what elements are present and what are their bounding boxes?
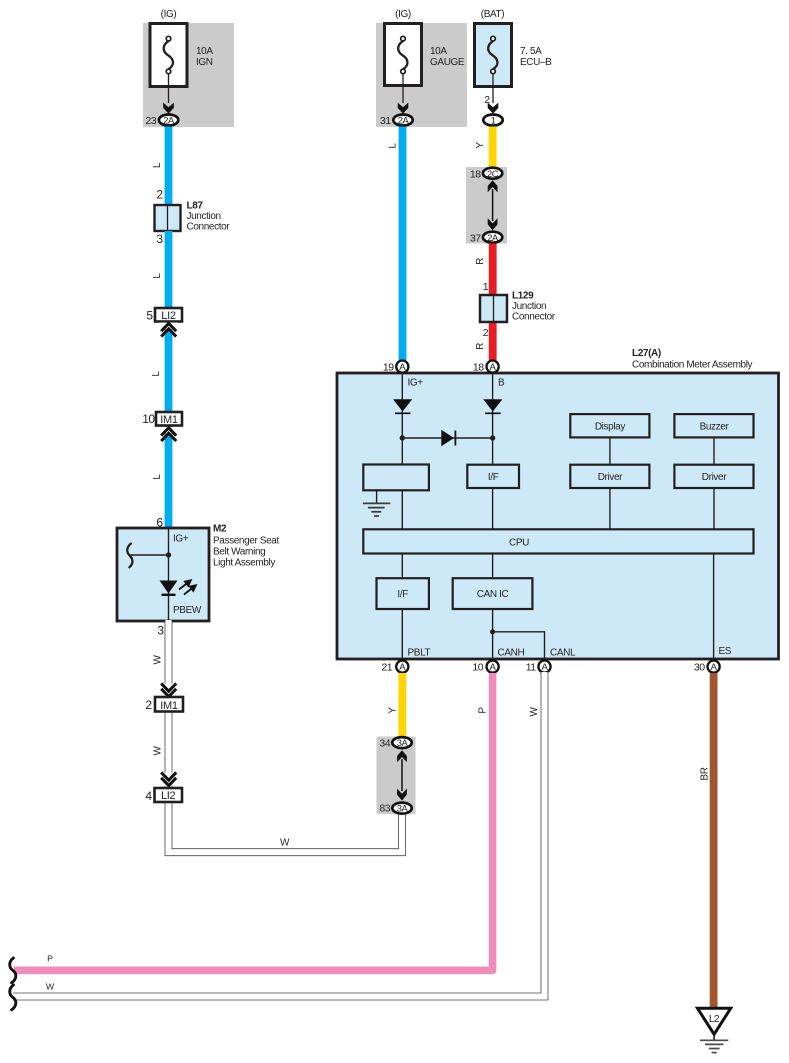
svg-text:A: A xyxy=(541,662,548,673)
svg-text:4: 4 xyxy=(145,789,152,803)
I/F box upper xyxy=(467,465,519,488)
wire L blue (fuse1 to L87) xyxy=(165,127,173,207)
svg-text:Light Assembly: Light Assembly xyxy=(213,558,275,569)
wire fuse1 to connector xyxy=(168,74,170,103)
svg-text:19: 19 xyxy=(383,362,394,374)
pin oval 2A xyxy=(483,232,502,243)
svg-text:Y: Y xyxy=(388,707,399,714)
svg-text:18: 18 xyxy=(473,362,484,374)
LED symbol xyxy=(160,581,178,594)
connector shading box 2C/2A xyxy=(466,167,507,244)
svg-text:18: 18 xyxy=(470,169,481,181)
pin oval 2C xyxy=(483,168,502,179)
wire I/F lower to PBLT pin xyxy=(401,609,403,660)
arrow into pin 31 xyxy=(398,103,409,114)
svg-text:Display: Display xyxy=(595,422,626,433)
wire driverL to CPU xyxy=(609,488,611,529)
regulator box (unnamed) xyxy=(363,465,429,491)
svg-text:L: L xyxy=(152,162,163,168)
connector mating arrow down xyxy=(397,789,407,801)
wire R red (2A to meter pin 18) xyxy=(489,244,497,362)
svg-text:W: W xyxy=(529,707,540,717)
switch curve symbol xyxy=(127,544,132,568)
wire CPU to I/F lower xyxy=(401,554,403,579)
wire W (M2 pin3 to connector 83-3A) xyxy=(169,620,403,852)
svg-text:2: 2 xyxy=(156,188,163,202)
svg-text:(BAT): (BAT) xyxy=(481,9,505,20)
svg-text:(IG): (IG) xyxy=(395,9,411,20)
fuse block shading box 2 xyxy=(376,23,467,127)
wire to switch xyxy=(131,554,169,556)
node junction CAN xyxy=(490,629,495,634)
cross wire with diode D3 xyxy=(402,437,492,439)
junction connector L129 xyxy=(480,295,507,322)
svg-text:L: L xyxy=(151,371,162,377)
svg-text:31: 31 xyxy=(380,115,391,127)
svg-text:21: 21 xyxy=(381,662,392,674)
fuse GAUGE element symbol xyxy=(398,36,407,73)
continuation squiggle P wire xyxy=(10,958,16,983)
svg-text:CPU: CPU xyxy=(509,538,529,549)
internal wire pin18 down xyxy=(492,373,494,465)
svg-text:30: 30 xyxy=(694,662,705,674)
connector link line xyxy=(492,189,494,221)
svg-text:IGN: IGN xyxy=(196,57,213,68)
svg-text:Connector: Connector xyxy=(187,222,231,233)
combination meter assembly box xyxy=(337,373,779,659)
svg-text:2: 2 xyxy=(145,698,152,712)
svg-text:CANH: CANH xyxy=(498,648,525,659)
svg-text:Combination Meter Assembly: Combination Meter Assembly xyxy=(632,360,753,371)
connector mating arrow up xyxy=(397,750,407,762)
svg-text:3A: 3A xyxy=(397,803,409,814)
Buzzer box xyxy=(674,414,753,437)
wire BR brown (pin30 to ground) xyxy=(710,673,718,1010)
svg-text:7. 5A: 7. 5A xyxy=(520,46,542,57)
svg-text:2: 2 xyxy=(483,327,489,339)
chevron marks above IM1 xyxy=(160,684,178,697)
chevron marks below IM1 xyxy=(160,427,178,434)
svg-text:Driver: Driver xyxy=(598,472,623,483)
wire L blue (LI2 to M2) xyxy=(165,318,173,528)
svg-text:1: 1 xyxy=(491,115,496,126)
wire fuse2 to connector xyxy=(402,74,404,103)
fuse IGN element symbol xyxy=(164,36,173,73)
svg-text:34: 34 xyxy=(379,738,390,750)
svg-text:BR: BR xyxy=(700,767,711,780)
wire display to driver xyxy=(609,437,611,464)
svg-text:1: 1 xyxy=(483,281,489,293)
CAN IC box xyxy=(453,578,533,609)
svg-text:CAN IC: CAN IC xyxy=(477,589,509,600)
pin oval 2A xyxy=(393,115,412,126)
svg-text:23: 23 xyxy=(145,115,156,127)
wire regulator to CPU xyxy=(401,490,403,529)
svg-text:R: R xyxy=(475,343,486,350)
M2 Passenger Seat Belt Warning Light Assembly box xyxy=(117,528,209,621)
svg-text:A: A xyxy=(711,662,718,673)
chevron marks above LI2 lower xyxy=(160,773,178,786)
wire CPU to CAN IC xyxy=(492,554,494,579)
wire L blue (L87 to LI2) xyxy=(165,231,173,309)
wire W white CANL (pin11 to left edge) xyxy=(13,672,545,997)
svg-text:3A: 3A xyxy=(397,737,409,748)
internal wire pin19 down xyxy=(401,373,403,465)
fuse block shading box 1 xyxy=(143,23,234,127)
svg-text:10: 10 xyxy=(472,662,483,674)
fuse IGN box xyxy=(150,24,187,87)
svg-text:P: P xyxy=(478,707,489,714)
svg-text:L87: L87 xyxy=(187,201,204,212)
svg-text:L: L xyxy=(388,143,399,149)
chevron marks below LI2 xyxy=(160,323,178,330)
svg-text:LI2: LI2 xyxy=(161,310,176,322)
svg-text:10A: 10A xyxy=(196,46,213,57)
svg-text:B: B xyxy=(498,378,505,389)
svg-text:Buzzer: Buzzer xyxy=(700,422,730,433)
svg-text:PBEW: PBEW xyxy=(173,605,202,616)
svg-text:R: R xyxy=(475,258,486,265)
wire Y yellow (fuse3 to 2C) xyxy=(489,127,497,170)
svg-text:37: 37 xyxy=(470,233,481,245)
svg-text:M2: M2 xyxy=(213,524,227,535)
connector mating arrow up xyxy=(488,180,498,192)
svg-text:Belt Warning: Belt Warning xyxy=(213,547,265,558)
svg-text:Junction: Junction xyxy=(512,301,546,312)
svg-text:11: 11 xyxy=(526,662,537,674)
wire fuse3 to connector xyxy=(492,74,494,103)
wire I/F to CPU xyxy=(492,488,494,529)
wire Y yellow (pin21 to 3A) xyxy=(398,673,406,738)
svg-text:Y: Y xyxy=(475,142,486,149)
svg-text:L2: L2 xyxy=(709,1014,720,1025)
LED emission arrows xyxy=(179,580,196,594)
svg-text:2C: 2C xyxy=(487,168,499,179)
svg-text:2A: 2A xyxy=(163,115,175,126)
svg-text:W: W xyxy=(153,746,164,756)
Display box xyxy=(570,414,649,437)
svg-text:Connector: Connector xyxy=(512,312,556,323)
connector LI2 xyxy=(155,308,182,322)
wire CAN IC to CANH pin xyxy=(492,609,494,660)
svg-text:2A: 2A xyxy=(487,232,499,243)
svg-text:W: W xyxy=(153,655,164,665)
wire CAN branch to CANL xyxy=(493,632,545,660)
svg-text:W: W xyxy=(280,838,290,849)
M2 internal wire xyxy=(168,528,170,621)
continuation squiggle W wire xyxy=(10,985,16,1010)
svg-text:Driver: Driver xyxy=(702,472,727,483)
svg-text:L: L xyxy=(152,474,163,480)
arrow into pin 1 xyxy=(488,103,499,114)
wire L blue (fuse2 to meter pin 19) xyxy=(399,127,407,362)
svg-text:ECU–B: ECU–B xyxy=(520,57,552,68)
diode D1 xyxy=(393,399,412,411)
node junction in M2 xyxy=(166,552,171,557)
svg-text:LI2: LI2 xyxy=(161,790,176,802)
fuse GAUGE box xyxy=(385,24,422,86)
svg-text:A: A xyxy=(399,362,406,373)
node junction right xyxy=(490,435,495,440)
I/F box lower xyxy=(377,578,429,609)
svg-text:IG+: IG+ xyxy=(408,378,424,389)
svg-text:L: L xyxy=(152,273,163,279)
svg-text:L27(A): L27(A) xyxy=(632,348,661,359)
svg-text:Passenger Seat: Passenger Seat xyxy=(213,536,279,547)
svg-text:I/F: I/F xyxy=(488,472,499,483)
svg-text:83: 83 xyxy=(379,803,390,815)
pin oval 1 xyxy=(483,115,502,126)
svg-text:(IG): (IG) xyxy=(161,9,177,20)
wire P pink (pin10 to left edge) xyxy=(14,673,493,970)
svg-text:10A: 10A xyxy=(430,46,447,57)
CPU box xyxy=(363,529,753,553)
connector mating arrow down xyxy=(488,218,498,230)
connector IM1 xyxy=(156,412,182,426)
Driver box left xyxy=(570,465,649,488)
svg-text:Junction: Junction xyxy=(187,211,221,222)
svg-text:ES: ES xyxy=(719,646,732,657)
svg-text:GAUGE: GAUGE xyxy=(430,57,465,68)
svg-text:A: A xyxy=(490,362,497,373)
fuse ECU-B element symbol xyxy=(488,36,497,73)
svg-text:I/F: I/F xyxy=(397,589,408,600)
wire CPU to ES pin xyxy=(713,554,715,661)
pin oval 2A xyxy=(159,115,178,126)
connector IM1 lower xyxy=(155,697,183,712)
node junction left xyxy=(400,435,405,440)
svg-text:3: 3 xyxy=(157,624,164,638)
svg-text:W: W xyxy=(46,982,55,992)
svg-text:2A: 2A xyxy=(398,115,410,126)
junction connector L87 xyxy=(155,205,181,231)
pin oval 34 3A xyxy=(392,737,411,748)
svg-text:3: 3 xyxy=(156,232,163,246)
svg-text:P: P xyxy=(47,954,53,964)
svg-text:L129: L129 xyxy=(512,291,534,302)
svg-text:IM1: IM1 xyxy=(160,700,178,712)
Driver box right xyxy=(674,465,753,488)
svg-text:A: A xyxy=(399,662,406,673)
connector link line xyxy=(401,759,403,791)
svg-text:CANL: CANL xyxy=(550,648,576,659)
svg-text:A: A xyxy=(490,662,497,673)
fuse ECU-B box xyxy=(475,24,512,87)
connector shading box 3A xyxy=(377,737,416,815)
svg-text:PBLT: PBLT xyxy=(408,648,431,659)
wire buzzer to driver xyxy=(713,437,715,464)
wire driverR to CPU xyxy=(713,488,715,529)
diode D2 xyxy=(483,399,502,411)
pin oval 83 3A xyxy=(392,803,411,814)
svg-text:10: 10 xyxy=(142,412,155,426)
svg-text:IG+: IG+ xyxy=(173,534,189,545)
internal ground xyxy=(376,490,378,503)
svg-text:IM1: IM1 xyxy=(160,414,178,426)
connector LI2 lower xyxy=(155,788,183,802)
svg-text:5: 5 xyxy=(146,309,153,323)
ground L2 xyxy=(698,1008,731,1034)
arrow into pin 23 xyxy=(163,103,174,114)
